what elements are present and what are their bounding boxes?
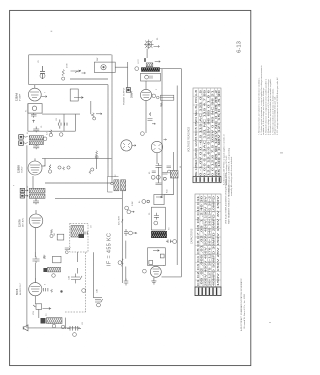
table 1 bold bottom row	[193, 177, 221, 183]
osc coil core bar	[79, 234, 85, 238]
notes list in right margin	[258, 65, 279, 135]
wire det to coupling cap	[34, 228, 36, 257]
wire left rail main	[26, 145, 28, 328]
svg-text:1M: 1M	[54, 233, 56, 236]
capacitor above coil	[33, 127, 39, 133]
cap at AVC bottom	[124, 229, 137, 286]
wire second bus	[29, 84, 108, 86]
tube V4 50C5 audio out	[29, 278, 42, 296]
gang link dashed	[65, 311, 86, 312]
wire rail link	[115, 66, 128, 68]
oscillator coil L2 upper	[29, 188, 45, 193]
wire osc coil to gang	[77, 252, 79, 274]
wire speaker line	[28, 327, 68, 329]
tube V2 12BE6 converter	[28, 158, 42, 175]
filter choke	[170, 171, 178, 179]
wire rectifier top link	[160, 68, 182, 70]
stray mark left mid	[13, 184, 14, 187]
wire vertical x75.4	[74, 114, 76, 131]
wire volume to T3	[38, 309, 40, 318]
wire choke bottom	[164, 178, 173, 195]
resistor R screen	[91, 113, 102, 120]
wire choke top	[173, 152, 175, 171]
switch box with neon	[94, 62, 115, 72]
wire tone cap line	[68, 327, 80, 329]
capacitor osc	[85, 232, 87, 235]
ground symbol below V7	[151, 277, 156, 284]
switch on bus	[75, 70, 86, 74]
wire osc drop 2	[125, 267, 127, 281]
wire IF row bus	[42, 157, 112, 159]
stray speck top left	[51, 30, 53, 33]
coupling capacitor C audio	[33, 257, 40, 264]
padder capacitor	[95, 299, 103, 307]
wire V1 plate arrow	[41, 96, 47, 98]
resistor R ant	[49, 130, 52, 137]
osc padder box	[57, 234, 64, 240]
capacitor stub	[32, 120, 35, 123]
wire converter row bus	[45, 182, 112, 184]
tube V7 output socket	[143, 266, 162, 277]
wire AVC lower	[121, 240, 123, 283]
output transformer core	[41, 318, 46, 324]
wire B+ rail x181.4	[180, 69, 182, 277]
caps right of V4	[44, 288, 63, 292]
T2 can outline	[108, 177, 119, 193]
table 1 cell values	[195, 88, 221, 181]
tone network box	[148, 248, 166, 266]
wire B+ rail x177	[176, 86, 178, 266]
V5 right test circles	[152, 94, 174, 100]
wire detector row bus	[55, 198, 122, 200]
filament arrow	[155, 61, 161, 63]
test circle below coil	[52, 274, 56, 278]
tuning gang dashed line	[85, 252, 87, 310]
grid resistor box	[53, 256, 62, 263]
tuning capacitor section A	[71, 274, 82, 284]
resistor R top bus	[62, 70, 65, 81]
resistor right of V2	[48, 165, 51, 174]
interstage core	[43, 268, 47, 272]
filter cluster extra caps	[152, 166, 171, 173]
wire antenna bus	[28, 130, 76, 132]
cap near output transformer	[166, 240, 177, 244]
wire filter cluster link	[158, 169, 160, 183]
loop antenna coil L1 upper	[29, 136, 47, 141]
wire V2 to osc coil	[32, 176, 34, 188]
resistor R osc grid	[89, 168, 94, 174]
converter coil terminal 2	[20, 194, 28, 198]
table 2 cell values	[197, 194, 220, 286]
volume control R vol	[33, 304, 50, 310]
wire bus stub	[70, 78, 108, 80]
filament dropping coil	[146, 63, 153, 67]
tube V6 socket view	[151, 139, 166, 153]
wire mid vertical x90.8	[90, 101, 92, 114]
break symbol in AVC line	[122, 259, 123, 267]
capacitor C mid pair	[58, 120, 67, 129]
wire V2 plate up	[42, 158, 45, 166]
tall box C block	[151, 207, 165, 230]
tube V5 35W4 rectifier	[140, 89, 151, 100]
test point left of transformer	[135, 67, 139, 71]
stray speck right margin	[269, 321, 271, 324]
test point circle below C	[40, 73, 45, 78]
resistor chain right of V2	[58, 166, 70, 170]
wire bus B drop	[107, 85, 109, 177]
resistor below V3	[50, 229, 53, 238]
svg-text:C2A: C2A	[68, 275, 71, 280]
wire audio coupling	[34, 252, 36, 257]
osc coil winding	[71, 226, 84, 238]
resistor B+ x161	[160, 102, 162, 107]
svg-text:470K: 470K	[67, 63, 69, 68]
resistor R mid x94	[95, 151, 98, 159]
oscillator coil box dashed	[70, 223, 88, 252]
wire top bus	[29, 54, 112, 56]
wire left drop of top bus	[28, 55, 30, 85]
table 2 bold bottom row	[195, 287, 221, 296]
tube V3 12AT6 det-avc	[29, 210, 43, 228]
wire power box to rectifier	[145, 81, 147, 89]
power transformer core dark bar	[141, 68, 159, 72]
capacitor below L2	[33, 198, 39, 204]
oscillator coil L2 lower	[29, 194, 45, 198]
resistor top of V4	[44, 256, 46, 259]
divider box R network	[142, 195, 164, 205]
wire pilot drop	[146, 49, 148, 58]
IF transformer T1 can	[28, 104, 42, 114]
capacitor below coil	[33, 145, 39, 150]
AVC test point	[125, 206, 135, 214]
electrolytic caps pair bottom	[67, 326, 81, 336]
capacitor under T1	[31, 113, 37, 117]
antenna terminal A1	[19, 135, 28, 139]
svg-text:C2B: C2B	[97, 288, 99, 293]
trimmer test point	[82, 289, 86, 293]
output transformer dark winding	[151, 231, 166, 237]
IF transformer T2 windings	[111, 180, 126, 191]
wire gang vertical	[92, 252, 94, 297]
wire B+ rail x162	[161, 69, 163, 198]
converter coil terminals	[20, 188, 28, 192]
parts list table (table 2)	[195, 194, 221, 287]
loop antenna coil L1 lower	[29, 141, 43, 145]
wire output loop bottom	[162, 276, 182, 278]
test point at break	[118, 261, 122, 265]
resistor surge	[141, 112, 156, 135]
svg-text:SW: SW	[97, 58, 99, 61]
tube V1 12BA6 IF amp	[28, 85, 41, 101]
test circle ant row	[59, 133, 63, 137]
border frame of schematic sheet	[10, 10, 251, 365]
wire volume drop	[34, 296, 36, 305]
break symbol upper in AVC line	[122, 219, 123, 222]
T3 test circle 1	[52, 324, 56, 328]
wire socket to filter	[156, 153, 158, 164]
wire cap to V4 grid	[34, 263, 36, 283]
wire output drop	[64, 318, 66, 329]
dial lamp socket circle	[121, 140, 136, 151]
wire resistor pair link	[96, 156, 98, 169]
wire long B+ bus A	[111, 55, 113, 183]
svg-text:117V: 117V	[138, 59, 140, 64]
wire osc drop	[125, 241, 127, 259]
arrow mid-left	[71, 70, 81, 72]
paper speckle texture	[10, 11, 250, 365]
fuse tick	[144, 58, 145, 62]
stray dash right margin mid	[280, 152, 283, 155]
wire IF can out	[42, 113, 80, 115]
wire AC line	[127, 62, 129, 87]
electrolytic C30A	[151, 163, 167, 185]
interstage coil	[48, 267, 61, 272]
wire gang bottom	[93, 297, 102, 299]
capacitor C input top	[40, 66, 45, 79]
speaker	[23, 325, 28, 331]
wire vertical x64	[63, 114, 65, 131]
pilot lamp	[144, 40, 160, 50]
rectifier aux box	[160, 95, 173, 100]
osc padder trimmer	[65, 247, 71, 253]
antenna terminal A2	[19, 141, 28, 145]
power unit box	[141, 73, 161, 81]
svg-text:7- Measured values are subject: 7- Measured values are subject to normal…	[258, 77, 261, 135]
tube voltage table (table 1)	[193, 88, 221, 182]
wire left rail upper	[27, 104, 29, 132]
wire rectifier cathode down	[145, 101, 147, 133]
svg-text:2.2M: 2.2M	[132, 201, 134, 206]
wire AVC vertical	[121, 189, 123, 240]
line cord plug	[126, 88, 130, 93]
phono jack box	[70, 89, 83, 101]
T3 test circle 2	[61, 325, 65, 329]
output transformer T3 winding	[47, 318, 63, 324]
